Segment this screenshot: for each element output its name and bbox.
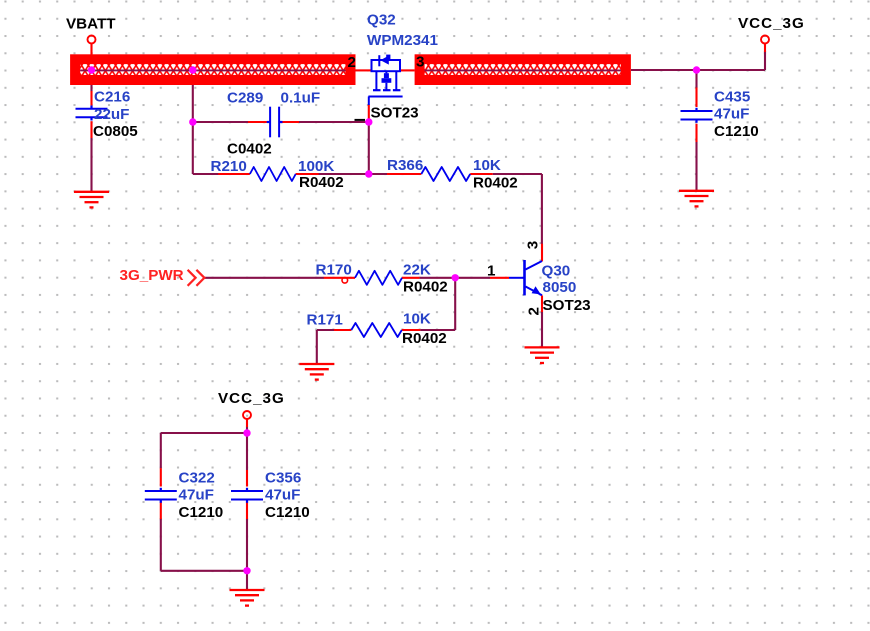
svg-text:47uF: 47uF (714, 106, 749, 123)
svg-text:2: 2 (348, 54, 356, 71)
svg-text:100K: 100K (298, 158, 334, 175)
svg-text:R0402: R0402 (403, 279, 448, 296)
svg-text:C0805: C0805 (93, 123, 138, 140)
svg-text:0.1uF: 0.1uF (281, 90, 321, 107)
svg-text:22uF: 22uF (94, 106, 129, 123)
svg-text:Q32: Q32 (367, 11, 396, 28)
svg-text:10K: 10K (473, 157, 501, 174)
svg-text:Q30: Q30 (542, 262, 571, 279)
svg-text:10K: 10K (403, 311, 431, 328)
svg-text:1: 1 (487, 262, 496, 279)
svg-text:R210: R210 (211, 158, 247, 175)
svg-text:C0402: C0402 (227, 140, 272, 157)
svg-text:R170: R170 (316, 262, 352, 279)
svg-text:C1210: C1210 (265, 504, 310, 521)
svg-text:C356: C356 (265, 469, 301, 486)
svg-text:47uF: 47uF (179, 487, 214, 504)
svg-text:47uF: 47uF (265, 487, 300, 504)
svg-text:3: 3 (525, 241, 542, 249)
svg-text:8050: 8050 (543, 279, 577, 296)
svg-text:C1210: C1210 (714, 123, 759, 140)
svg-text:WPM2341: WPM2341 (367, 32, 438, 49)
svg-text:VCC_3G: VCC_3G (218, 390, 285, 407)
svg-text:SOT23: SOT23 (371, 104, 419, 121)
svg-text:C216: C216 (94, 89, 130, 106)
svg-text:2: 2 (525, 307, 542, 315)
svg-text:VBATT: VBATT (66, 16, 116, 33)
svg-text:3G_PWR: 3G_PWR (120, 267, 184, 284)
svg-text:R171: R171 (307, 312, 344, 329)
svg-text:SOT23: SOT23 (543, 297, 591, 314)
svg-text:VCC_3G: VCC_3G (738, 15, 805, 32)
svg-text:C1210: C1210 (179, 504, 224, 521)
svg-text:C289: C289 (227, 90, 263, 107)
svg-text:C322: C322 (179, 469, 215, 486)
svg-text:R366: R366 (387, 157, 423, 174)
svg-text:R0402: R0402 (402, 330, 447, 347)
svg-text:22K: 22K (403, 262, 431, 279)
svg-text:R0402: R0402 (299, 174, 344, 191)
svg-text:C435: C435 (714, 88, 751, 105)
svg-text:3: 3 (416, 54, 424, 71)
svg-text:R0402: R0402 (473, 174, 518, 191)
